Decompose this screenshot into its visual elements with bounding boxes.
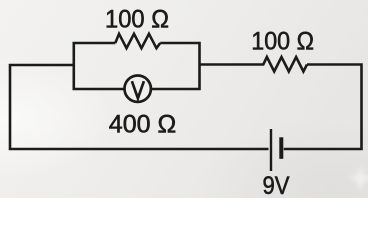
svg-text:100 Ω: 100 Ω	[251, 28, 314, 56]
svg-text:400 Ω: 400 Ω	[109, 110, 177, 138]
svg-text:9V: 9V	[263, 172, 290, 198]
svg-text:100 Ω: 100 Ω	[105, 5, 169, 33]
